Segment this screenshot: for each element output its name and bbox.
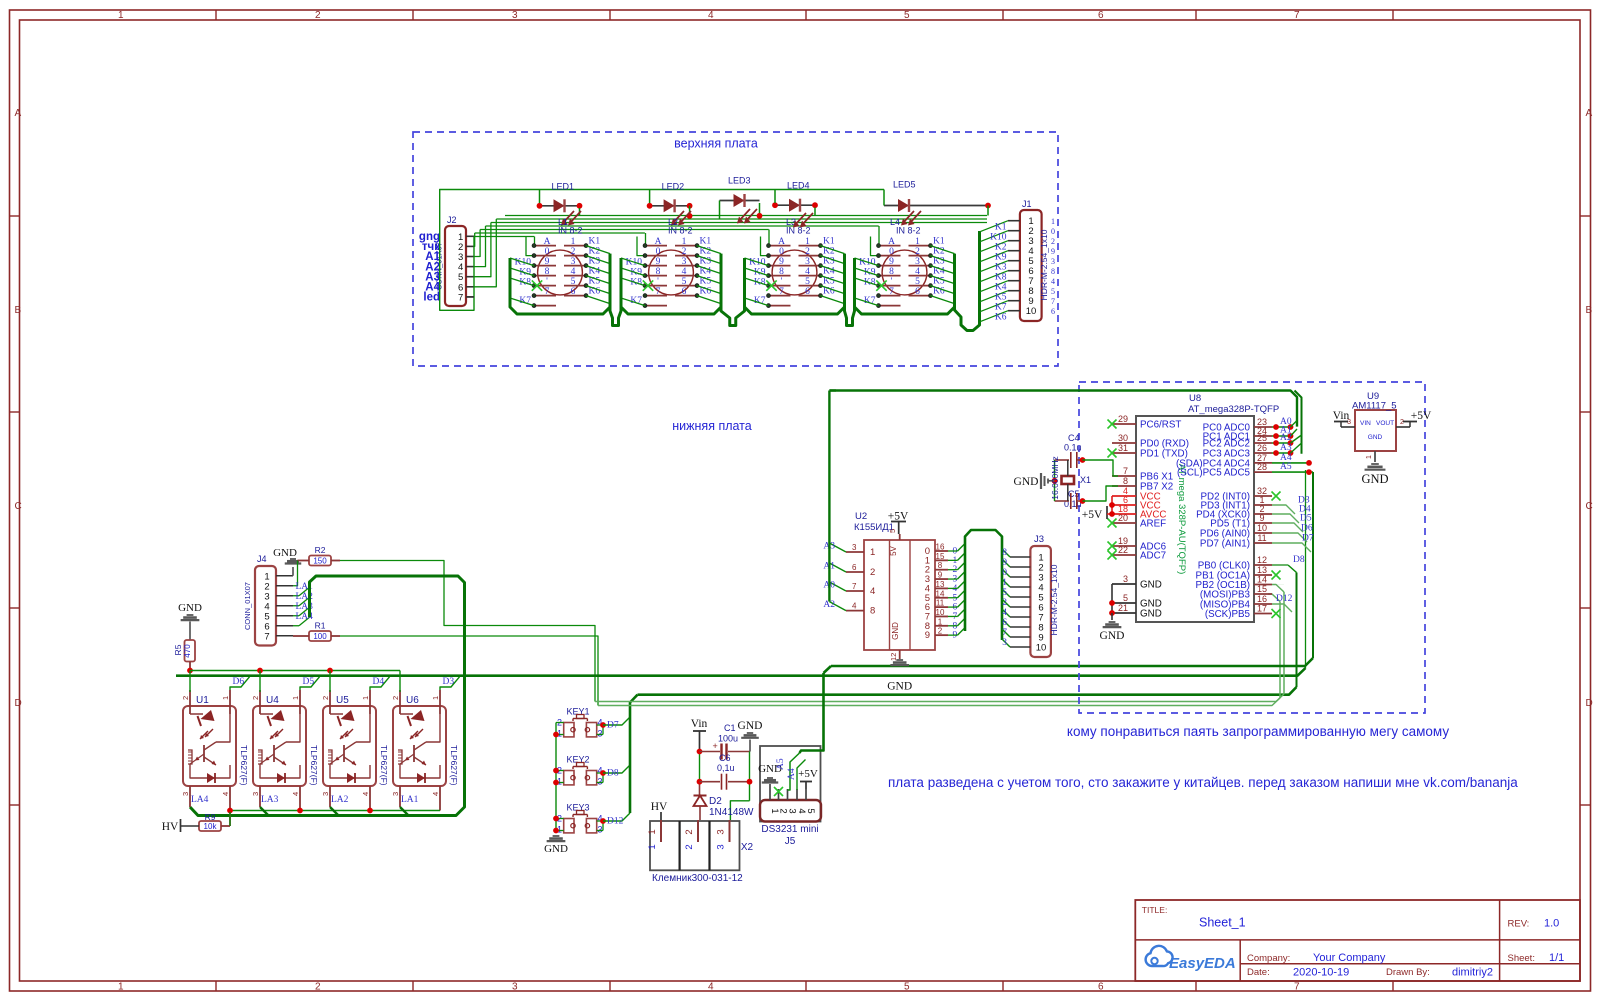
svg-text:TLP627(F): TLP627(F) [449,745,459,786]
svg-text:D7: D7 [1302,534,1314,544]
svg-text:5V: 5V [889,545,898,555]
svg-text:3: 3 [852,543,857,552]
svg-text:9: 9 [779,257,784,267]
U2 pin fan 3 [948,578,958,580]
U8 right pin 27 (SDA)PC4 ADC4 [1254,462,1272,464]
svg-text:9: 9 [925,630,930,641]
LED3 emission arrows [745,209,757,222]
thick tub bus under tubes [510,254,955,326]
svg-text:2: 2 [1051,237,1055,246]
svg-text:Sheet:: Sheet: [1508,953,1535,964]
svg-text:A: A [888,237,895,247]
wire U6 pin2 riser [399,671,401,693]
svg-text:A2: A2 [823,600,835,610]
svg-text:3: 3 [597,825,602,835]
svg-text:R5: R5 [173,644,183,655]
svg-text:C1: C1 [724,723,736,733]
svg-text:led: led [423,292,440,304]
svg-text:кому понравиться паять запрогр: кому понравиться паять запрограммированн… [1067,724,1449,739]
svg-text:2: 2 [321,696,330,700]
svg-text:GND: GND [1361,472,1388,486]
thick loop U2 to J3 [965,530,1002,640]
svg-text:0: 0 [1051,227,1055,236]
svg-text:REV:: REV: [1508,919,1530,930]
wire C5 to PB7 [1080,498,1086,504]
svg-text:AREF: AREF [1140,519,1166,530]
switch KEY1 [557,707,603,739]
svg-text:0: 0 [1002,568,1007,578]
svg-text:5: 5 [682,277,687,287]
flag A1 diag at U2 [829,563,846,572]
wire LED1 anode riser [539,190,541,204]
svg-text:3: 3 [571,257,576,267]
svg-text:': ' [781,277,783,287]
svg-text:3: 3 [597,777,602,787]
net flag at U4 pin1 [300,677,320,690]
svg-text:1: 1 [291,696,300,700]
U8 right pin 23 PC0 ADC0 [1254,426,1272,428]
svg-text:7: 7 [779,287,784,297]
svg-text:C: C [1586,501,1593,512]
svg-text:3: 3 [321,792,330,796]
svg-text:D6: D6 [233,677,245,687]
J1 fan wire K9 [980,251,1008,262]
svg-text:X1: X1 [1080,475,1091,485]
svg-text:30: 30 [1118,433,1128,443]
J1 fan wire K1 [980,221,1008,232]
svg-text:A2: A2 [1280,433,1292,443]
U8 right pin 16 (MISO)PB4 [1254,603,1272,605]
wire U1 pin2 riser [189,671,191,693]
svg-text:': ' [891,277,893,287]
svg-text:LA3: LA3 [261,795,279,805]
svg-text:25: 25 [1257,433,1267,443]
svg-text:dimitriy2: dimitriy2 [1452,966,1493,978]
svg-text:22: 22 [1118,545,1128,555]
svg-text:J1: J1 [1022,199,1032,209]
svg-text:17: 17 [1257,604,1267,614]
resistor R5 470 vertical [185,640,196,662]
svg-text:LED1: LED1 [552,181,575,191]
J3 fan wire 2 [1002,559,1010,567]
svg-text:1.0: 1.0 [1544,918,1559,930]
flag A2 diag at U2 [829,602,846,611]
U2 pin fan 1 [948,559,958,561]
svg-text:5: 5 [805,277,810,287]
J3 fan wire 5 [1002,589,1010,597]
U2 pin fan 0 [948,550,958,552]
svg-text:A5: A5 [776,758,786,770]
svg-text:3: 3 [251,792,260,796]
svg-text:плата разведена с учетом того,: плата разведена с учетом того, сто закаж… [888,775,1518,790]
svg-text:K7: K7 [995,303,1007,313]
svg-text:2: 2 [915,247,920,257]
junction dots pin4 rail [227,808,233,814]
+5V at U9 [1396,426,1410,428]
svg-text:J2: J2 [447,215,457,225]
GND below U9 [1374,451,1376,462]
U8 left pin 7 PB6 X1 [1112,475,1136,477]
U8 left pin 31 PD1 (TXD) [1112,452,1136,454]
svg-text:10: 10 [936,608,945,617]
resistor R2 150 [309,556,331,566]
svg-text:31: 31 [1118,443,1128,453]
DS3231 pin stubs [769,789,771,800]
svg-text:3: 3 [512,10,518,21]
U8 left pin 5 GND [1112,602,1136,604]
U8 right pin 13 PB1 (OC1A) [1254,574,1272,576]
svg-text:U8: U8 [1189,393,1201,404]
svg-text:1: 1 [1051,217,1055,226]
J1 fan wire K5 [980,291,1008,302]
svg-text:1: 1 [361,696,370,700]
wire C4 to PB6 [1080,457,1086,463]
optocoupler U5 TLP627 [321,690,389,811]
svg-text:LED5: LED5 [893,180,916,190]
svg-text:16: 16 [1257,594,1267,604]
wire LED1 cathode drop [579,208,581,216]
svg-text:3: 3 [787,808,798,813]
svg-text:7: 7 [264,631,269,642]
J3 fan wire 9 [1002,629,1010,637]
long thick bus H675 [176,668,1306,676]
svg-text:1: 1 [915,237,920,247]
wire C4 C5 left vertical [1054,460,1056,501]
U2 pin fan 5 [948,597,958,599]
svg-text:2: 2 [251,696,260,700]
connector J2 CONN_01X07 [445,226,466,306]
U8 A pin wires [1272,426,1291,428]
svg-text:J5: J5 [785,836,796,847]
svg-text:3: 3 [597,729,602,739]
svg-text:4: 4 [870,586,875,597]
wire LED3 right drop [759,203,761,216]
svg-text:5: 5 [888,529,897,533]
svg-text:4: 4 [852,602,857,611]
optocoupler U4 TLP627 [251,690,319,811]
svg-text:4: 4 [708,982,714,993]
svg-text:TLP627(F): TLP627(F) [379,745,389,786]
U8 left pin 3 GND [1112,583,1136,585]
U8 right pin 25 PC2 ADC2 [1254,442,1272,444]
svg-text:GND: GND [887,681,912,693]
U8 left pin 30 PD0 (RXD) [1112,442,1136,444]
svg-text:D4: D4 [373,677,385,687]
svg-text:6: 6 [852,563,857,572]
svg-text:0.1u: 0.1u [1064,443,1082,453]
svg-text:2: 2 [181,696,190,700]
svg-text:D3: D3 [443,677,455,687]
wire U5 pin2 riser [329,671,331,693]
svg-text:1: 1 [1002,578,1007,588]
svg-text:0,1u: 0,1u [717,763,735,773]
svg-text:6: 6 [1098,10,1104,21]
svg-text:GND: GND [738,720,763,732]
svg-text:4: 4 [361,792,370,796]
svg-text:Date:: Date: [1247,967,1270,978]
svg-text:A: A [544,237,551,247]
svg-text:1/1: 1/1 [1549,952,1564,964]
U8 left pin 29 PC6/RST [1112,423,1136,425]
svg-text:GND: GND [1140,580,1162,591]
svg-text:U1: U1 [196,695,209,706]
svg-text:470: 470 [183,644,192,658]
svg-text:K9: K9 [995,253,1007,263]
wire J2 pin risers [473,233,476,246]
wire LED4 cathode drop [814,208,816,216]
svg-text:Drawn By:: Drawn By: [1386,967,1430,978]
wire LED5 anode elbow [883,190,885,206]
svg-text:K1: K1 [823,236,835,246]
svg-text:5: 5 [571,277,576,287]
svg-text:2: 2 [315,982,321,993]
svg-text:4: 4 [708,10,714,21]
svg-text:11: 11 [936,599,945,608]
svg-text:6: 6 [571,287,576,297]
svg-text:HV: HV [651,801,668,813]
svg-text:IN 8-2: IN 8-2 [786,226,811,236]
svg-text:J4: J4 [257,554,267,564]
svg-text:AT_mega328P-TQFP: AT_mega328P-TQFP [1188,404,1279,415]
svg-text:GND: GND [273,547,297,559]
J3 fan wire 8 [1002,619,1010,627]
svg-text:K2: K2 [995,243,1007,253]
svg-text:5: 5 [1051,287,1055,296]
U8 right pin 11 PD7 (AIN1) [1254,542,1272,544]
J3 fan wire 3 [1002,569,1010,577]
svg-text:0: 0 [656,247,661,257]
svg-text:9: 9 [545,257,550,267]
svg-text:A: A [1586,108,1593,119]
svg-text:8: 8 [1002,548,1007,558]
svg-text:7: 7 [1123,466,1128,476]
svg-text:3: 3 [1051,257,1055,266]
svg-text:1: 1 [870,547,875,558]
GND symbol below keys [553,835,560,837]
svg-text:3: 3 [181,792,190,796]
wire tube A drops [534,237,536,246]
svg-text:PC6/RST: PC6/RST [1140,420,1181,431]
LED LED3 [720,176,760,208]
svg-text:7: 7 [1294,10,1300,21]
svg-text:6: 6 [1002,618,1007,628]
U8 right pin 9 PD5 (T1) [1254,522,1272,524]
svg-text:7: 7 [458,292,463,303]
svg-text:2: 2 [684,844,695,849]
svg-text:A: A [15,108,22,119]
svg-text:4: 4 [431,792,440,796]
svg-text:2: 2 [391,696,400,700]
U8 left pin 4 VCC [1112,495,1136,497]
svg-text:2: 2 [1400,419,1404,426]
svg-text:5: 5 [1002,588,1007,598]
svg-text:TLP627(F): TLP627(F) [309,745,319,786]
svg-text:': ' [657,277,659,287]
junction R5 bottom [187,668,193,674]
svg-text:K10: K10 [990,233,1007,243]
U8 left pin 18 AVCC [1112,513,1136,515]
wire U4 pin2 riser [259,671,261,693]
J1 fan wire K3 [980,261,1008,272]
wires KEY1 [556,722,564,724]
U2 pin fan 7 [948,615,958,617]
svg-text:15: 15 [1257,584,1267,594]
A4 vertical to H675 [1305,470,1307,668]
svg-text:': ' [546,277,548,287]
svg-text:3: 3 [1347,419,1351,426]
J3 fan wire 6 [1002,599,1010,607]
U8 D8 flag [1272,564,1288,566]
frame row ticks [10,215,20,217]
U8 right pin 1 PD3 (INT1) [1254,504,1272,506]
U8 right pin 26 PC3 ADC3 [1254,452,1272,454]
svg-text:U5: U5 [336,695,349,706]
svg-text:1N4148W: 1N4148W [709,807,754,818]
svg-text:8: 8 [1123,476,1128,486]
svg-text:GND: GND [1368,434,1383,441]
svg-text:Vin: Vin [691,718,708,730]
svg-text:5: 5 [1123,593,1128,603]
svg-text:нижняя плата: нижняя плата [672,419,751,433]
svg-text:D8: D8 [1293,555,1305,565]
U8 right pin 2 PD4 (XCK0) [1254,513,1272,515]
svg-text:U2: U2 [855,511,867,522]
resistor R9 10k [199,821,221,831]
svg-text:GND: GND [1014,476,1039,488]
svg-text:Company:: Company: [1247,953,1290,964]
connector J4 CONN_01X07 [255,566,276,646]
svg-text:TLP627(F): TLP627(F) [239,745,249,786]
svg-text:IN 8-2: IN 8-2 [558,226,583,236]
svg-text:A4: A4 [787,768,797,780]
svg-text:100: 100 [313,632,327,641]
svg-text:3: 3 [805,257,810,267]
left GND vertical of keys [555,723,557,834]
svg-text:9: 9 [1259,513,1264,523]
svg-text:LED2: LED2 [662,181,685,191]
svg-text:1: 1 [221,696,230,700]
svg-text:7: 7 [852,582,857,591]
svg-text:3: 3 [512,982,518,993]
svg-text:15: 15 [936,552,945,561]
svg-text:1: 1 [431,696,440,700]
LED2 emission arrows [679,211,691,224]
svg-text:EasyEDA: EasyEDA [1169,955,1236,972]
svg-text:10k: 10k [204,822,218,831]
svg-text:LA2: LA2 [331,795,349,805]
thick bus A5 into DS3231 [800,673,824,753]
svg-text:2: 2 [315,10,321,21]
svg-text:K8: K8 [995,273,1007,283]
svg-text:1: 1 [118,10,124,21]
connector J3 HDR-M-2.54 1x10 [1030,546,1051,657]
svg-text:21: 21 [1118,603,1128,613]
optocoupler U6 TLP627 [391,690,459,811]
diode D2 1N4148W [694,796,707,807]
svg-text:13: 13 [936,580,945,589]
svg-text:C: C [15,501,22,512]
U8 right pin 28 (SCL)PC5 ADC5 [1254,471,1272,473]
svg-text:B: B [1586,305,1593,316]
svg-text:C4: C4 [1068,433,1080,443]
svg-text:4: 4 [1002,608,1007,618]
wire tube 0 elbows [526,237,535,256]
nixie tube at x=671 [621,236,721,307]
svg-text:3: 3 [1123,574,1128,584]
U8 right pin 12 PB0 (CLK0) [1254,564,1272,566]
dashed box upper board [413,132,1058,366]
svg-text:GND: GND [544,843,568,855]
svg-text:8: 8 [656,267,661,277]
svg-text:D8: D8 [607,769,619,779]
wire LED5 cathode drop [987,206,989,216]
U8 right pin 17 (SCK)PB5 [1254,613,1272,615]
resistor R1 100 [309,631,331,641]
U8 right pin 14 PB2 (OC1B) [1254,584,1272,586]
svg-text:4: 4 [291,792,300,796]
thick bus H694 keys to U8 [638,687,1297,695]
LED LED2 [647,181,693,212]
svg-text:8: 8 [938,561,943,570]
svg-text:29: 29 [1118,414,1128,424]
svg-text:D6: D6 [1301,524,1313,534]
IC U9 AM1117-5 [1355,410,1396,451]
svg-text:0: 0 [889,247,894,257]
thick LA bus from J4 to optos [190,576,465,816]
wire top anode rail [440,190,884,311]
svg-text:3: 3 [391,792,400,796]
svg-text:Sheet_1: Sheet_1 [1199,916,1246,930]
svg-text:28: 28 [1257,462,1267,472]
LED5 emission arrows [909,211,921,224]
U8 right pin 15 (MOSI)PB3 [1254,593,1272,595]
J1 fan wire K4 [980,281,1008,292]
svg-text:LA1: LA1 [401,795,419,805]
svg-text:16: 16 [936,543,945,552]
svg-text:12: 12 [1257,555,1267,565]
wire J4 pin2 to R2 [293,561,298,586]
wire LED4 anode riser [774,190,776,204]
svg-text:LED4: LED4 [787,181,810,191]
svg-text:14: 14 [1257,575,1267,585]
opto pin3 chamfers to thick bus [260,807,269,816]
svg-text:0: 0 [545,247,550,257]
svg-text:2: 2 [938,627,943,636]
switch KEY3 [557,803,603,835]
LED1 emission arrows [569,211,581,224]
svg-text:B: B [15,305,22,316]
svg-text:Your Company: Your Company [1313,952,1386,964]
U8 D flag wires [1272,505,1295,514]
svg-text:4: 4 [682,267,687,277]
svg-text:13: 13 [1257,565,1267,575]
U8 left pin 20 AREF [1112,522,1136,524]
module DS3231 gray box [760,746,821,822]
svg-text:6: 6 [915,287,920,297]
svg-text:1: 1 [647,844,658,849]
U8 right pin 10 PD6 (AIN0) [1254,532,1272,534]
svg-text:9: 9 [889,257,894,267]
svg-text:+5V: +5V [798,768,818,780]
svg-text:5: 5 [904,982,910,993]
svg-text:ADC7: ADC7 [1140,551,1166,562]
J3 fan wire 4 [1002,579,1010,587]
optocoupler U1 TLP627 [181,690,249,826]
J3 fan wire 7 [1002,609,1010,617]
svg-text:D7: D7 [607,721,619,731]
svg-text:C6: C6 [719,753,731,763]
connector J1 HDR-M-2.54 1x10 [1020,210,1042,321]
